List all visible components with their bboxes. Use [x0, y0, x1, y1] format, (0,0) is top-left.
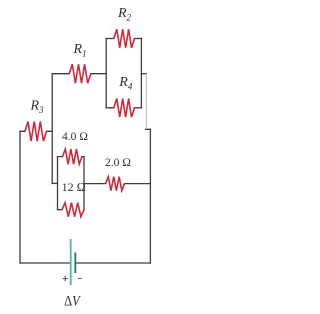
svg-text:12 Ω: 12 Ω	[62, 180, 86, 194]
svg-text:4.0 Ω: 4.0 Ω	[62, 131, 88, 143]
svg-text:2.0 Ω: 2.0 Ω	[105, 157, 131, 169]
svg-text:ΔV: ΔV	[64, 293, 81, 309]
